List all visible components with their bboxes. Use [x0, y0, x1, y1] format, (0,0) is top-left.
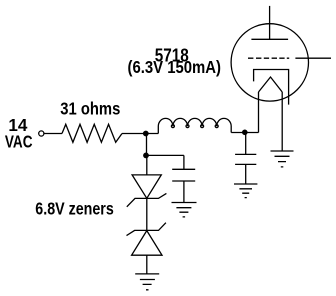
svg-text:31 ohms: 31 ohms: [60, 99, 120, 119]
svg-text:(6.3V 150mA): (6.3V 150mA): [128, 57, 222, 77]
svg-text:VAC: VAC: [5, 131, 33, 151]
svg-text:6.8V zeners: 6.8V zeners: [35, 198, 114, 218]
